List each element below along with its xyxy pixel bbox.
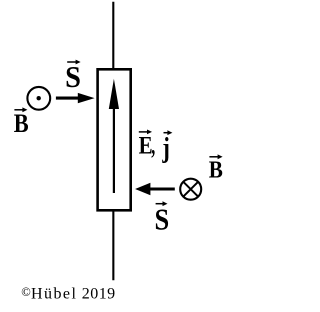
svg-text:B: B bbox=[209, 156, 223, 183]
label E (electric field) bbox=[139, 130, 153, 160]
Poynting arrow left (points right into conductor) bbox=[56, 93, 95, 103]
svg-text:©: © bbox=[21, 285, 31, 299]
svg-text:2019: 2019 bbox=[82, 286, 116, 303]
label S (left Poynting vector) bbox=[65, 60, 81, 95]
label B (right) bbox=[209, 154, 223, 183]
conductor box (resistor body) bbox=[98, 69, 131, 210]
svg-text:j: j bbox=[162, 133, 170, 164]
label j (current density) bbox=[162, 130, 173, 164]
svg-text:S: S bbox=[65, 60, 81, 94]
svg-text:B: B bbox=[14, 109, 29, 138]
B-field symbol into page (right, circle-cross) bbox=[180, 179, 201, 200]
svg-text:S: S bbox=[155, 203, 170, 237]
wire bottom lead bbox=[112, 211, 114, 281]
svg-text:Hübel: Hübel bbox=[31, 286, 77, 303]
label S (right Poynting vector) bbox=[155, 201, 170, 236]
current/field arrow E,j inside conductor bbox=[109, 79, 119, 193]
Poynting arrow right (points left into conductor) bbox=[135, 183, 175, 196]
copyright caption bbox=[21, 285, 115, 303]
B-field symbol out of page (left, circle-dot) bbox=[27, 87, 50, 110]
wire top lead bbox=[112, 2, 114, 69]
label B (left) bbox=[14, 107, 29, 138]
svg-text:,: , bbox=[151, 130, 155, 159]
